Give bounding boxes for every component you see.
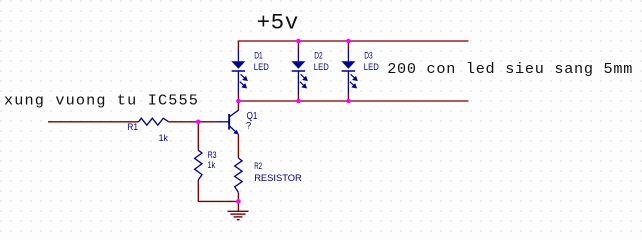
svg-text:D1: D1 [254, 51, 262, 62]
svg-text:LED: LED [364, 62, 379, 73]
svg-text:D2: D2 [314, 51, 322, 62]
svg-text:+5v: +5v [257, 10, 299, 36]
svg-text:RESISTOR: RESISTOR [254, 173, 302, 184]
svg-text:R1: R1 [127, 122, 138, 133]
svg-text:LED: LED [254, 62, 269, 73]
svg-text:D3: D3 [364, 51, 372, 62]
svg-text:?: ? [246, 121, 251, 132]
svg-text:xung vuong tu IC555: xung vuong tu IC555 [4, 92, 199, 110]
svg-text:1k: 1k [159, 133, 169, 144]
svg-text:LED: LED [314, 62, 329, 73]
svg-text:1k: 1k [208, 160, 216, 171]
svg-text:200 con led sieu sang 5mm: 200 con led sieu sang 5mm [387, 60, 633, 78]
svg-text:R2: R2 [254, 161, 262, 172]
